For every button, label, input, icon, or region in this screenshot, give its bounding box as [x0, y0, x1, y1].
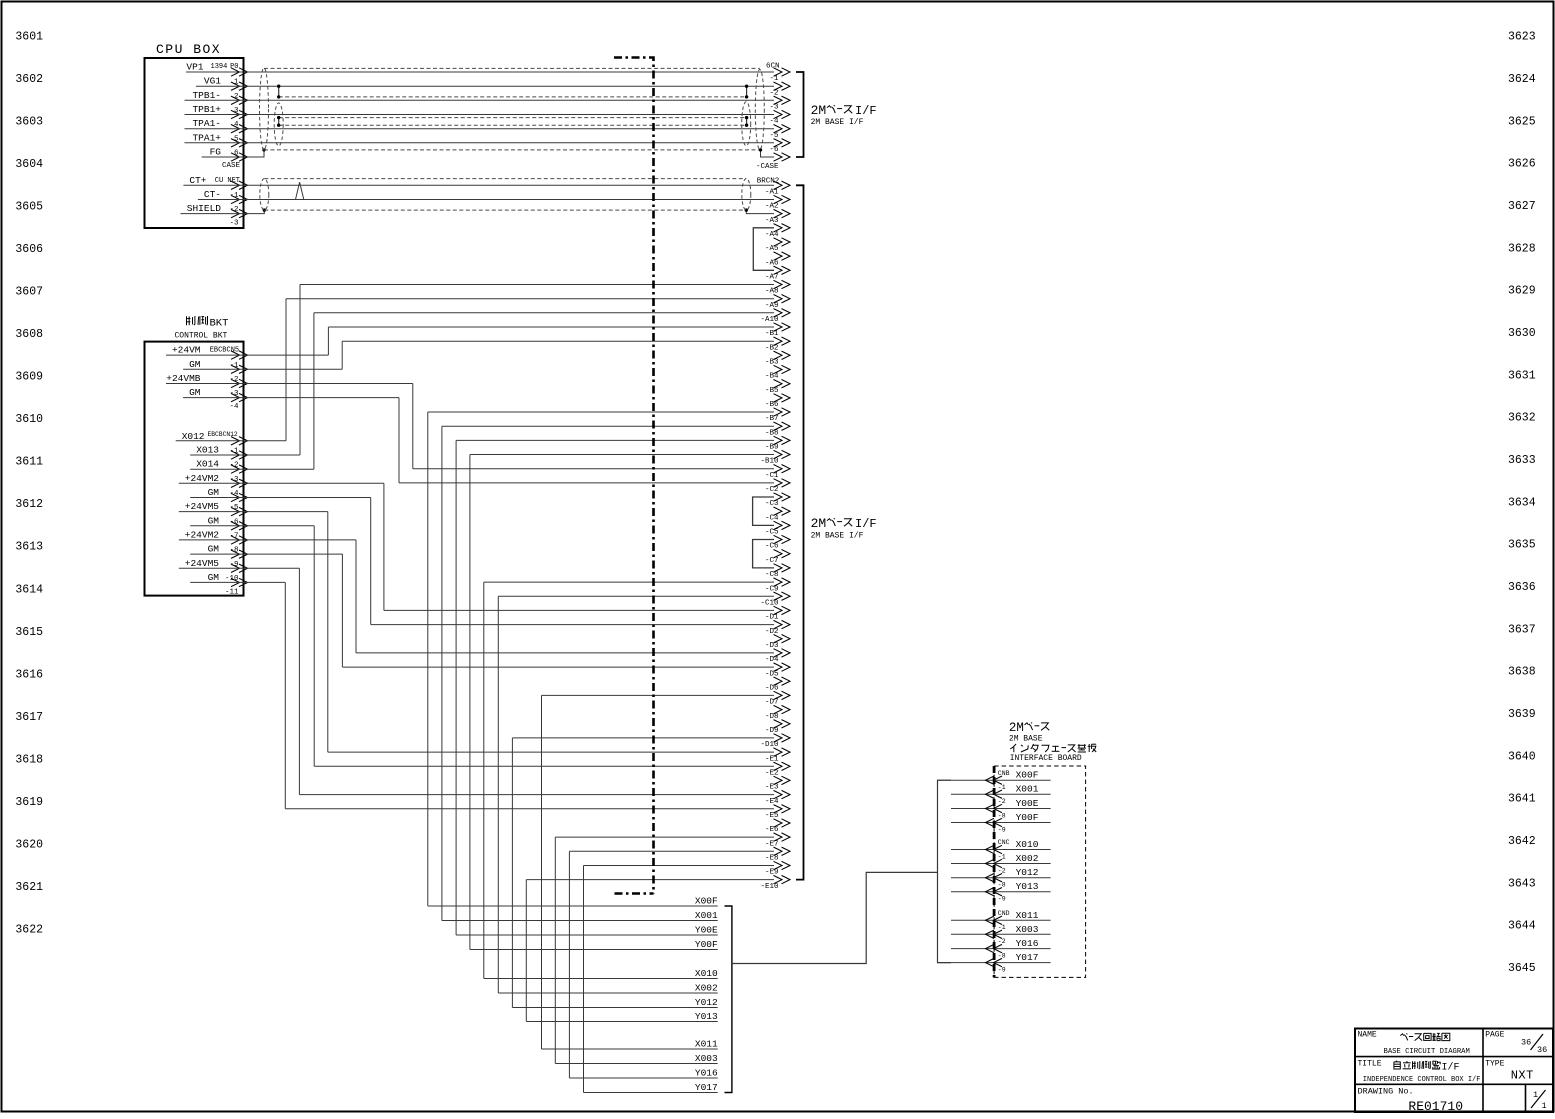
svg-text:NAME: NAME: [1358, 1031, 1377, 1040]
svg-text:X002: X002: [1016, 853, 1039, 864]
svg-text:-8: -8: [998, 812, 1006, 819]
wire route GM(-6) to -E2: [190, 525, 314, 527]
svg-text:3624: 3624: [1508, 73, 1536, 86]
svg-text:-B2: -B2: [765, 344, 779, 352]
svg-text:I/F: I/F: [855, 104, 877, 118]
svg-text:-D9: -D9: [765, 727, 779, 735]
svg-text:TITLE: TITLE: [1358, 1060, 1382, 1069]
svg-text:Y012: Y012: [695, 997, 718, 1008]
svg-text:-D3: -D3: [765, 642, 779, 650]
svg-text:DRAWING No.: DRAWING No.: [1358, 1087, 1414, 1097]
svg-text:1: 1: [1533, 1090, 1538, 1100]
svg-text:Y013: Y013: [695, 1011, 718, 1022]
svg-text:-CASE: -CASE: [756, 163, 779, 171]
svg-text:36: 36: [1521, 1038, 1531, 1048]
svg-text:3605: 3605: [15, 201, 43, 214]
svg-text:3616: 3616: [15, 668, 43, 681]
wire CT- to BRCN2-A2: [198, 199, 774, 201]
svg-text:Y017: Y017: [1016, 952, 1039, 963]
wire route Y016 to BRCN2 -E8: [569, 1077, 717, 1079]
svg-text:BASE CIRCUIT DIAGRAM: BASE CIRCUIT DIAGRAM: [1384, 1048, 1470, 1056]
wire route +24VM to -B1: [166, 354, 328, 356]
svg-text:CND: CND: [998, 910, 1010, 917]
wire route Y017 to BRCN2 -E9: [584, 1092, 718, 1094]
svg-text:+24VM5: +24VM5: [185, 558, 220, 569]
svg-text:3640: 3640: [1508, 750, 1536, 763]
wire 1394 row 0 (VP1): [186, 71, 774, 73]
wire route +24VM2(-7) to -D4: [179, 539, 356, 541]
wire SHIELD to shield drain: [181, 210, 265, 214]
svg-text:-B7: -B7: [765, 415, 779, 423]
svg-text:-B4: -B4: [765, 373, 779, 381]
shield dashed row D: [279, 124, 747, 126]
svg-text:-1: -1: [998, 924, 1006, 931]
svg-text:3637: 3637: [1508, 623, 1536, 636]
svg-text:-D1: -D1: [765, 614, 779, 622]
interface board connector edge (thick dashed): [993, 766, 996, 977]
wire route GM(-8) to -D5: [190, 553, 342, 555]
svg-text:-C1: -C1: [765, 472, 779, 480]
svg-text:-A8: -A8: [765, 288, 779, 296]
wire route X014 to -A10: [190, 468, 314, 470]
svg-text:+24VM: +24VM: [172, 345, 201, 356]
svg-text:+24VM2: +24VM2: [185, 530, 220, 541]
svg-text:-C9: -C9: [765, 585, 779, 593]
svg-text:+24VM2: +24VM2: [185, 473, 220, 484]
svg-text:-B1: -B1: [765, 330, 779, 338]
shield dashed row C: [279, 117, 747, 119]
svg-text:3618: 3618: [15, 753, 43, 766]
svg-text:3642: 3642: [1508, 835, 1536, 848]
svg-text:3604: 3604: [15, 158, 43, 171]
CU NET shield ellipse right: [742, 179, 751, 211]
svg-text:+24VM5: +24VM5: [185, 501, 220, 512]
svg-text:-A7: -A7: [765, 274, 779, 282]
svg-text:2M BASE: 2M BASE: [1009, 735, 1043, 744]
svg-text:X014: X014: [196, 459, 219, 470]
shield ellipse left outer: [260, 68, 269, 150]
svg-text:-B3: -B3: [765, 359, 779, 367]
CPU BOX edge connector arrows: [231, 68, 248, 76]
svg-text:-1: -1: [998, 784, 1006, 791]
svg-text:CT+: CT+: [189, 175, 206, 186]
svg-text:-2: -2: [998, 798, 1006, 805]
wire route X012 to -A9: [176, 440, 286, 442]
wire route +24VM5(-9) to -E4: [179, 567, 300, 569]
svg-text:-4: -4: [229, 403, 239, 411]
interface board title japanese interface pcb: [1010, 744, 1016, 749]
svg-text:3621: 3621: [15, 881, 43, 894]
svg-text:-E10: -E10: [760, 883, 779, 891]
CU NET shield ellipse left: [260, 179, 269, 211]
svg-text:-E1: -E1: [765, 755, 779, 763]
svg-text:-E6: -E6: [765, 826, 779, 834]
svg-text:TPA1+: TPA1+: [192, 132, 221, 143]
svg-text:-C3: -C3: [765, 500, 779, 508]
svg-text:-9: -9: [998, 967, 1006, 974]
svg-text:-B10: -B10: [760, 458, 779, 466]
svg-text:X003: X003: [1016, 924, 1039, 935]
svg-text:3645: 3645: [1508, 962, 1536, 975]
CU NET dashed row G: [264, 209, 746, 211]
shield tap VG1 left: [278, 86, 280, 97]
svg-text:Y00F: Y00F: [1016, 812, 1039, 823]
svg-text:-A10: -A10: [760, 316, 779, 324]
svg-text:NXT: NXT: [1511, 1069, 1534, 1083]
svg-text:X010: X010: [1016, 839, 1039, 850]
interface board dashed outline: [994, 766, 1086, 977]
interface board connector CNB wires+arrows: [938, 779, 1051, 781]
svg-text:-C2: -C2: [765, 486, 779, 494]
svg-text:3635: 3635: [1508, 539, 1536, 552]
svg-text:3625: 3625: [1508, 115, 1536, 128]
svg-text:-1: -1: [998, 853, 1006, 860]
svg-text:-3: -3: [229, 220, 239, 228]
svg-text:X002: X002: [695, 983, 718, 994]
wire route +24VMB(-2) to -C1: [166, 383, 413, 385]
svg-text:3601: 3601: [15, 31, 43, 44]
svg-text:3602: 3602: [15, 73, 43, 86]
svg-text:3603: 3603: [15, 116, 43, 129]
svg-text:X001: X001: [1016, 784, 1039, 795]
shield ellipse right inner: [742, 102, 751, 146]
svg-text:-E9: -E9: [765, 869, 779, 877]
svg-text:-E4: -E4: [765, 798, 779, 806]
wire route GM(-1) to -B2: [183, 368, 342, 370]
svg-text:-D4: -D4: [765, 656, 779, 664]
svg-text:VG1: VG1: [204, 76, 221, 87]
X/Y group bracket: [725, 906, 732, 1093]
svg-text:3615: 3615: [15, 626, 43, 639]
svg-text:GM: GM: [208, 515, 220, 526]
6CN connector arrows: [774, 68, 791, 76]
svg-text:3638: 3638: [1508, 666, 1536, 679]
jumper -A4 to -A7: [753, 228, 774, 270]
svg-text:-B5: -B5: [765, 387, 779, 395]
svg-text:X003: X003: [695, 1053, 718, 1064]
svg-text:-C7: -C7: [765, 557, 779, 565]
svg-text:1: 1: [1542, 1101, 1547, 1111]
svg-text:3611: 3611: [15, 456, 43, 469]
wire route GM(-10) to -E5: [190, 581, 285, 583]
svg-text:-A4: -A4: [765, 231, 779, 239]
shield ellipse left inner: [274, 103, 283, 146]
interface board connector CND wires+arrows: [951, 919, 1051, 921]
svg-text:3633: 3633: [1508, 454, 1536, 467]
svg-text:+24VMB: +24VMB: [166, 373, 201, 384]
svg-text:GM: GM: [208, 487, 220, 498]
svg-text:FG: FG: [210, 147, 222, 158]
svg-text:CPU BOX: CPU BOX: [156, 42, 221, 57]
svg-text:3607: 3607: [15, 286, 43, 299]
interface board collector bracket: [938, 780, 952, 962]
svg-text:3634: 3634: [1508, 496, 1536, 509]
svg-text:TPB1+: TPB1+: [192, 104, 221, 115]
svg-text:2M BASE I/F: 2M BASE I/F: [811, 118, 864, 127]
CONTROL BKT box outline: [145, 342, 244, 596]
svg-text:3620: 3620: [15, 838, 43, 851]
partition dash-dot line: [614, 58, 654, 894]
svg-text:3606: 3606: [15, 243, 43, 256]
svg-text:2M: 2M: [811, 103, 827, 118]
svg-text:Y017: Y017: [695, 1082, 718, 1093]
shield dashed row A: [264, 67, 760, 69]
svg-text:-4: -4: [769, 118, 779, 126]
svg-text:Y012: Y012: [1016, 867, 1039, 878]
svg-text:3612: 3612: [15, 498, 43, 511]
BRCN2 group bracket: [796, 185, 804, 879]
svg-text:-D2: -D2: [765, 628, 779, 636]
svg-text:CASE: CASE: [222, 162, 241, 170]
shield drain dashed row E: [264, 149, 761, 151]
svg-text:-B8: -B8: [765, 429, 779, 437]
svg-text:I/F: I/F: [1442, 1062, 1460, 1074]
svg-text:X011: X011: [1016, 910, 1039, 921]
svg-text:3628: 3628: [1508, 242, 1536, 255]
svg-text:CT-: CT-: [204, 189, 221, 200]
svg-text:3622: 3622: [15, 923, 43, 936]
svg-text:-E3: -E3: [765, 784, 779, 792]
svg-text:Y016: Y016: [695, 1068, 718, 1079]
svg-text:-E7: -E7: [765, 840, 779, 848]
svg-text:3608: 3608: [15, 328, 43, 341]
svg-text:3617: 3617: [15, 711, 43, 724]
wire route +24VM2(-3) to -D1: [179, 482, 384, 484]
wire route GM(-4) to -D2: [190, 497, 371, 499]
svg-text:3627: 3627: [1508, 200, 1536, 213]
svg-text:X00F: X00F: [1016, 770, 1039, 781]
svg-text:3619: 3619: [15, 796, 43, 809]
svg-text:1394: 1394: [211, 63, 228, 71]
svg-text:X00F: X00F: [695, 896, 718, 907]
svg-text:GM: GM: [189, 359, 201, 370]
svg-text:3641: 3641: [1508, 793, 1536, 806]
svg-text:-B9: -B9: [765, 444, 779, 452]
svg-text:2M: 2M: [811, 516, 827, 531]
svg-text:3623: 3623: [1508, 31, 1536, 44]
jumper -C6 to -C8: [753, 540, 774, 568]
svg-text:3643: 3643: [1508, 877, 1536, 890]
wire 1394 row 5 (TPA1+(5)): [185, 142, 775, 144]
shield tap pair right: [746, 118, 748, 126]
svg-text:-D6: -D6: [765, 684, 779, 692]
svg-text:X013: X013: [196, 445, 219, 456]
svg-text:BKT: BKT: [210, 318, 229, 330]
svg-text:-D7: -D7: [765, 699, 779, 707]
svg-text:-E8: -E8: [765, 855, 779, 863]
svg-text:Y00E: Y00E: [695, 925, 718, 936]
wire 1394 row 1 (VG1(1)): [196, 85, 774, 87]
wire route X002 to BRCN2 -C10: [498, 992, 717, 994]
shield tap pair left: [278, 118, 280, 126]
svg-text:3644: 3644: [1508, 920, 1536, 933]
svg-text:INDEPENDENCE CONTROL BOX I/F: INDEPENDENCE CONTROL BOX I/F: [1363, 1076, 1481, 1084]
svg-text:3636: 3636: [1508, 581, 1536, 594]
wire route X001 to BRCN2 -B8: [442, 920, 718, 922]
svg-text:-8: -8: [998, 882, 1006, 889]
svg-text:-A5: -A5: [765, 245, 779, 253]
svg-text:-2: -2: [998, 938, 1006, 945]
svg-text:-2: -2: [998, 867, 1006, 874]
svg-text:-9: -9: [998, 826, 1006, 833]
wire route Y012 to BRCN2 -D10: [512, 1007, 717, 1009]
svg-text:-8: -8: [998, 953, 1006, 960]
wire 1394 row 3 (TPB1+(3)): [185, 114, 775, 116]
svg-text:X001: X001: [695, 910, 718, 921]
wire route Y013 to BRCN2 -E10: [526, 1021, 717, 1023]
svg-text:CNC: CNC: [998, 839, 1010, 846]
svg-text:Y013: Y013: [1016, 881, 1039, 892]
wire route Y00F to BRCN2 -B10: [470, 949, 718, 951]
CPU BOX outline: [145, 58, 244, 228]
svg-text:-E2: -E2: [765, 770, 779, 778]
wire route Y00E to BRCN2 -B9: [456, 934, 718, 936]
svg-text:INTERFACE BOARD: INTERFACE BOARD: [1010, 754, 1082, 763]
svg-text:2M BASE I/F: 2M BASE I/F: [811, 532, 864, 541]
wire 1394 row 4 (TPA1-(4)): [185, 128, 775, 130]
CONTROL BKT title japanese: [186, 316, 188, 325]
svg-text:-E5: -E5: [765, 812, 779, 820]
title block name japanese: [1400, 1034, 1404, 1036]
interface board connector CNC wires+arrows: [951, 849, 1051, 851]
wire route X003 to BRCN2 -E7: [555, 1063, 717, 1065]
svg-text:3613: 3613: [15, 541, 43, 554]
svg-text:-B6: -B6: [765, 401, 779, 409]
6CN group bracket: [796, 72, 804, 157]
svg-text:-D8: -D8: [765, 713, 779, 721]
svg-text:-9: -9: [998, 896, 1006, 903]
svg-text:SHIELD: SHIELD: [187, 203, 222, 214]
svg-text:2M: 2M: [1009, 721, 1024, 735]
svg-text:-1: -1: [769, 75, 779, 83]
svg-text:TYPE: TYPE: [1485, 1060, 1504, 1069]
svg-text:3631: 3631: [1508, 369, 1536, 382]
svg-text:-C10: -C10: [760, 599, 779, 607]
shield ellipse right outer: [755, 70, 764, 150]
svg-text:GM: GM: [208, 572, 220, 583]
svg-text:X011: X011: [695, 1039, 718, 1050]
shield tap VG1 right: [746, 86, 748, 97]
wire bracket to interface board: [732, 872, 938, 963]
svg-text:-5: -5: [769, 132, 779, 140]
svg-text:-6: -6: [769, 146, 779, 154]
svg-text:CONTROL BKT: CONTROL BKT: [175, 332, 228, 341]
svg-text:3639: 3639: [1508, 708, 1536, 721]
svg-text:-3: -3: [769, 104, 779, 112]
svg-text:CNB: CNB: [998, 770, 1010, 777]
svg-text:Y00F: Y00F: [695, 939, 718, 950]
shield dashed row B: [279, 96, 747, 98]
svg-text:VP1: VP1: [186, 62, 203, 73]
svg-text:3609: 3609: [15, 371, 43, 384]
wire route X013 to -A8: [190, 454, 300, 456]
svg-text:-C8: -C8: [765, 571, 779, 579]
twisted pair crossover symbol: [296, 182, 304, 199]
svg-text:-C5: -C5: [765, 529, 779, 537]
svg-text:3610: 3610: [15, 413, 43, 426]
svg-text:3614: 3614: [15, 583, 43, 596]
svg-text:-A3: -A3: [765, 217, 779, 225]
title block grid: [1355, 1029, 1553, 1113]
svg-text:-A6: -A6: [765, 259, 779, 267]
wire CT+ to BRCN2-A1: [183, 184, 774, 186]
svg-text:I/F: I/F: [855, 517, 877, 531]
svg-text:EBCBCN12: EBCBCN12: [207, 431, 237, 438]
wire route X011 to BRCN2 -D7: [542, 1048, 718, 1050]
svg-text:-C6: -C6: [765, 543, 779, 551]
svg-text:RE01710: RE01710: [1408, 1099, 1463, 1114]
svg-text:-D5: -D5: [765, 670, 779, 678]
wire route GM(-3) to -C2: [183, 397, 399, 399]
svg-text:3630: 3630: [1508, 327, 1536, 340]
svg-text:-11: -11: [225, 589, 239, 597]
BRCN2 connector arrows (50 pins): [774, 181, 791, 189]
title block title japanese: [1396, 1061, 1397, 1062]
svg-text:GM: GM: [189, 387, 201, 398]
svg-text:-A2: -A2: [765, 203, 779, 211]
wire shield drain to BRCN2-A3: [746, 210, 774, 214]
CONTROL BKT edge connector arrows: [231, 351, 248, 359]
svg-text:-2: -2: [769, 89, 778, 97]
svg-text:-C4: -C4: [765, 514, 779, 522]
svg-text:-D10: -D10: [760, 741, 779, 749]
svg-text:BRCN2: BRCN2: [757, 178, 780, 186]
svg-text:TPB1-: TPB1-: [192, 90, 221, 101]
svg-text:3629: 3629: [1508, 285, 1536, 298]
wire route X00F to BRCN2 -B7: [428, 905, 718, 907]
svg-text:TPA1-: TPA1-: [192, 118, 221, 129]
svg-text:Y00E: Y00E: [1016, 798, 1039, 809]
svg-text:-A9: -A9: [765, 302, 779, 310]
svg-text:X010: X010: [695, 968, 718, 979]
svg-text:3632: 3632: [1508, 412, 1536, 425]
svg-text:3626: 3626: [1508, 158, 1536, 171]
svg-text:36: 36: [1537, 1045, 1547, 1055]
wire 1394 row 2 (TPB1-(2)): [185, 99, 775, 101]
svg-text:PAGE: PAGE: [1485, 1031, 1504, 1040]
CU NET dashed row F: [264, 178, 746, 180]
svg-text:GM: GM: [208, 544, 220, 555]
svg-text:-A1: -A1: [765, 189, 779, 197]
jumper -C3 to -C5: [753, 497, 774, 525]
wire FG(6) to shield drain: [202, 150, 264, 157]
wire route X010 to BRCN2 -C9: [484, 978, 718, 980]
svg-text:Y016: Y016: [1016, 938, 1039, 949]
wire route +24VM5(-5) to -E1: [179, 511, 328, 513]
wire shield drain to 6CN-6: [761, 150, 775, 157]
